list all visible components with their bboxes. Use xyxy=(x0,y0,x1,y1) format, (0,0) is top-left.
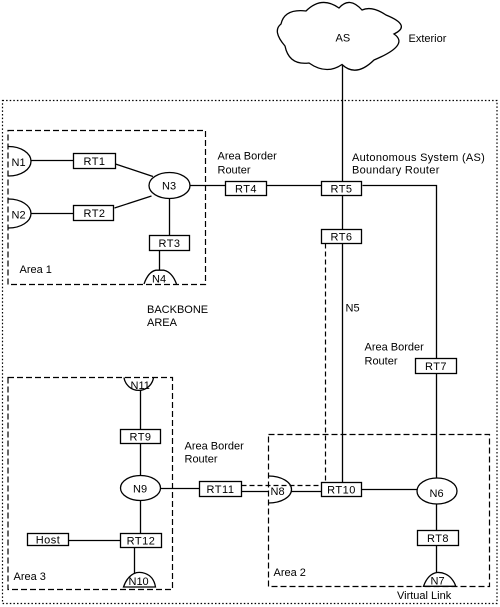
svg-text:N2: N2 xyxy=(12,210,26,222)
svg-text:RT12: RT12 xyxy=(127,536,156,548)
router RT8 xyxy=(418,531,459,546)
Area 1 dashed box xyxy=(8,131,206,285)
wire network N5: RT6 to RT10 xyxy=(342,244,344,483)
router RT10 xyxy=(322,483,362,497)
svg-text:N8: N8 xyxy=(271,486,285,498)
wire N3 to RT3 xyxy=(169,197,171,236)
svg-text:RT9: RT9 xyxy=(129,432,151,444)
network N6 ellipse xyxy=(417,478,457,504)
host box xyxy=(28,534,69,546)
svg-text:RT2: RT2 xyxy=(83,208,105,220)
Area 2 dashed box xyxy=(269,435,490,587)
wire RT3 to N4 xyxy=(159,251,161,273)
network N7 dome xyxy=(424,572,456,586)
svg-text:N6: N6 xyxy=(430,488,444,500)
wire Host to RT12 xyxy=(69,540,121,542)
wire RT4 to RT5 xyxy=(267,185,323,187)
wire RT11 to N8 xyxy=(242,491,269,493)
svg-text:RT4: RT4 xyxy=(235,184,257,196)
svg-text:RT8: RT8 xyxy=(427,533,449,545)
network N3 ellipse xyxy=(149,173,190,199)
Area 3 dashed box xyxy=(8,378,173,590)
wire RT10 to N6 xyxy=(362,489,419,491)
svg-text:Exterior: Exterior xyxy=(409,33,447,45)
svg-text:RT6: RT6 xyxy=(330,232,352,244)
wire cloud to RT5 xyxy=(342,64,344,182)
router RT2 xyxy=(74,206,114,221)
network N8 stub xyxy=(269,476,292,503)
wire RT1 to N3 xyxy=(116,164,154,177)
svg-text:Host: Host xyxy=(36,535,61,547)
wire N9 to RT11 xyxy=(159,488,200,490)
router RT11 xyxy=(200,482,242,497)
svg-text:Area 1: Area 1 xyxy=(20,264,52,276)
svg-text:Router: Router xyxy=(365,356,398,368)
wire RT7 to N6 xyxy=(436,374,438,481)
router RT3 xyxy=(150,236,190,251)
wire N6 to RT8 xyxy=(436,502,438,531)
virtual link dashed RT6 to RT10 xyxy=(325,244,327,483)
router RT5 xyxy=(322,182,362,196)
svg-text:Router: Router xyxy=(218,165,251,177)
wire N9 to RT12 xyxy=(140,499,142,534)
wire N11 to RT9 xyxy=(140,391,142,430)
svg-text:N9: N9 xyxy=(133,484,147,496)
svg-text:Area Border: Area Border xyxy=(365,342,425,354)
svg-text:Router: Router xyxy=(185,454,218,466)
svg-text:BACKBONE: BACKBONE xyxy=(147,304,208,316)
router RT7 xyxy=(416,359,457,374)
svg-text:N11: N11 xyxy=(131,380,150,392)
wire RT5 to RT7 corner xyxy=(363,186,437,359)
svg-text:N7: N7 xyxy=(431,576,445,588)
svg-text:Area 3: Area 3 xyxy=(14,571,46,583)
svg-text:Virtual Link: Virtual Link xyxy=(397,590,452,602)
wire N8 to RT10 xyxy=(290,491,322,493)
svg-text:Boundary Router: Boundary Router xyxy=(352,165,440,177)
router RT1 xyxy=(74,154,116,169)
network N1 stub xyxy=(9,147,32,177)
router RT9 xyxy=(121,430,161,444)
router RT4 xyxy=(226,182,267,196)
svg-text:Area 2: Area 2 xyxy=(274,567,306,579)
svg-text:N3: N3 xyxy=(162,181,176,193)
network N10 dome xyxy=(124,572,156,587)
router RT6 xyxy=(322,230,362,244)
network N11 dome hanging xyxy=(124,378,154,391)
wire N1 to RT1 xyxy=(30,160,74,162)
svg-text:RT7: RT7 xyxy=(425,361,447,373)
wire RT9 to N9 xyxy=(140,444,142,478)
wire RT8 to N7 xyxy=(436,546,438,574)
svg-text:AREA: AREA xyxy=(147,317,178,329)
wire RT5 to RT6 xyxy=(342,196,344,231)
svg-text:Area Border: Area Border xyxy=(185,441,245,453)
virtual link dashed RT11 to RT10 xyxy=(242,485,322,487)
wire N3 to RT4 xyxy=(187,185,226,187)
network N2 stub xyxy=(9,199,32,228)
svg-text:AS: AS xyxy=(336,33,351,45)
svg-text:RT10: RT10 xyxy=(327,485,356,497)
svg-text:N10: N10 xyxy=(129,576,149,588)
svg-text:RT11: RT11 xyxy=(207,484,235,496)
network N4 dome xyxy=(144,270,177,284)
svg-text:RT3: RT3 xyxy=(158,238,180,250)
svg-text:N5: N5 xyxy=(346,303,360,315)
svg-text:Autonomous System (AS): Autonomous System (AS) xyxy=(352,152,485,164)
wire RT12 to N10 xyxy=(134,548,136,574)
network N9 ellipse xyxy=(121,476,161,501)
svg-text:RT1: RT1 xyxy=(83,156,105,168)
svg-text:N1: N1 xyxy=(12,157,26,169)
wire N2 to RT2 xyxy=(30,213,75,215)
svg-text:N4: N4 xyxy=(152,274,166,286)
svg-text:RT5: RT5 xyxy=(330,184,352,196)
router RT12 xyxy=(121,534,162,548)
cloud AS xyxy=(277,2,401,70)
svg-text:Area Border: Area Border xyxy=(218,151,278,163)
wire RT2 to N3 xyxy=(115,196,152,208)
